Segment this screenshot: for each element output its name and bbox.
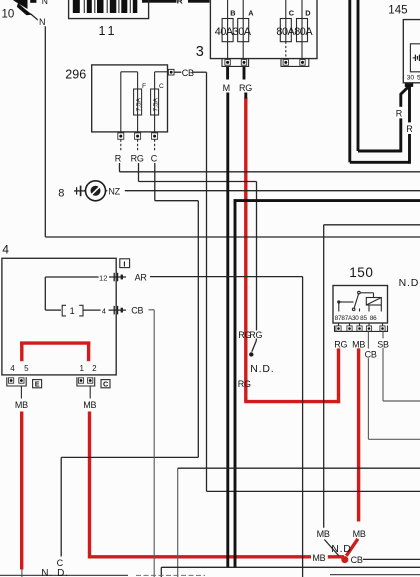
fuse holder box 296 — [92, 65, 168, 132]
svg-text:MB: MB — [83, 400, 96, 410]
svg-text:D: D — [305, 9, 310, 18]
connector bracket under fuses C D — [281, 59, 309, 67]
svg-text:SB: SB — [377, 339, 389, 349]
svg-text:N.D.: N.D. — [250, 363, 274, 375]
svg-text:N.D.: N.D. — [399, 277, 420, 289]
relay internals — [337, 291, 381, 311]
wire left red tail thin to bottom edge — [21, 569, 23, 577]
wire MB red left: connector E pin 5 down — [20, 412, 23, 570]
wire CB from 296 down then right to edge — [192, 72, 420, 491]
svg-text:R: R — [115, 154, 122, 164]
svg-text:150: 150 — [349, 265, 373, 280]
svg-text:C: C — [289, 9, 295, 18]
component 10 (cut symbol top left) — [13, 0, 36, 15]
wire RG stub black below fusebox 3 — [244, 67, 246, 99]
svg-text:4 5: 4 5 — [10, 364, 32, 373]
svg-text:8787A30 85 86: 8787A30 85 86 — [335, 315, 377, 322]
wire red U-link inside control unit 4 (pins 5 to 2) — [20, 342, 90, 362]
label CB at 150 — [364, 349, 377, 360]
label MB at 150 — [352, 338, 366, 349]
wire thick top edge with R label — [142, 0, 210, 3]
connector strip 11 — [69, 0, 149, 19]
svg-text:4: 4 — [102, 307, 106, 316]
svg-text:N.D: N.D — [331, 543, 351, 555]
fuse C 80A — [280, 0, 291, 59]
svg-text:1 2: 1 2 — [80, 364, 100, 373]
svg-text:R: R — [406, 124, 413, 134]
control unit box 4 — [2, 258, 116, 375]
label R wire under 145 — [395, 107, 406, 119]
boxed label C — [101, 380, 110, 389]
wire thick branch: corner at mid going right and down — [234, 199, 420, 567]
svg-text:RG: RG — [238, 379, 251, 389]
svg-text:C: C — [151, 154, 158, 164]
svg-text:1: 1 — [70, 306, 75, 316]
connector CB on 296 right edge — [168, 69, 181, 75]
wire C from 296 down, right, down, left, down to bottom C — [61, 163, 198, 557]
svg-text:MB: MB — [312, 553, 325, 563]
svg-text:30: 30 — [407, 74, 415, 81]
node junction under box 145 — [405, 83, 413, 87]
wire MB red from relay 150 pin 30 down to junction — [346, 348, 358, 555]
svg-text:80A80A: 80A80A — [276, 26, 313, 38]
svg-text:R: R — [396, 108, 403, 118]
connector bracket E below box 4 — [7, 377, 26, 398]
svg-text:10: 10 — [2, 9, 15, 21]
svg-text:AR: AR — [135, 273, 148, 283]
wire MB red bottom horizontal — [90, 555, 345, 558]
fuse C 7.5A in 296 — [151, 89, 159, 115]
label N on wire — [38, 16, 48, 27]
wire CB bottom right to edge — [363, 558, 420, 560]
wire SB from relay 150 down then right — [383, 331, 420, 401]
boxed label E — [33, 380, 42, 389]
svg-text:40A30A: 40A30A — [215, 26, 252, 38]
svg-text:11: 11 — [99, 24, 118, 38]
fuse F 7.5A in 296 — [134, 89, 142, 115]
component [ 1 ] inside 4 — [62, 305, 108, 316]
svg-text:A: A — [248, 9, 254, 18]
wire R upper U-turn (inner) — [358, 0, 409, 152]
wire RG from 296 down, right, down to N.D. stub — [139, 163, 257, 352]
label R wire2 under 145 — [405, 122, 416, 134]
svg-text:7,5A: 7,5A — [135, 97, 142, 111]
connector pin 12 on box edge — [109, 273, 127, 282]
wire inside 4 to pin 12 — [45, 277, 108, 310]
relay box 150 — [333, 286, 388, 324]
component 8 connector symbol — [74, 186, 86, 197]
wire bottom edge line left — [0, 574, 128, 576]
svg-text:MB: MB — [15, 400, 28, 410]
svg-text:MB: MB — [353, 529, 366, 539]
svg-text:MB: MB — [317, 529, 330, 539]
svg-text:N: N — [39, 17, 45, 27]
box 145 top right — [403, 20, 420, 83]
wire N from component 10 down left side then right — [31, 14, 420, 237]
fuse B 40A — [222, 0, 233, 59]
svg-text:145: 145 — [388, 5, 407, 17]
boxed label I — [120, 259, 130, 269]
svg-text:NZ: NZ — [108, 187, 120, 197]
fuse box 3 — [210, 0, 317, 59]
svg-text:C: C — [103, 380, 109, 389]
svg-text:N: N — [42, 0, 48, 6]
svg-text:RG: RG — [131, 154, 144, 164]
svg-text:I: I — [123, 259, 125, 268]
node junction dot N.D — [341, 556, 348, 563]
label 12 pin — [99, 272, 109, 282]
wire R from fuse F of 296 to right edge — [120, 163, 420, 172]
connector bracket under fuses B A with pins M RG — [222, 59, 249, 67]
svg-text:RG: RG — [334, 339, 347, 349]
wires inside 296 — [121, 72, 169, 133]
wire corner up from bottom edge to right at mid-low — [178, 468, 420, 577]
svg-text:MB: MB — [352, 339, 365, 349]
node N.D. dot of RG stub — [249, 352, 253, 356]
svg-text:CB: CB — [365, 349, 377, 359]
wire AR from control unit 4 right then down to bottom — [150, 277, 303, 577]
svg-text:7,5A: 7,5A — [152, 97, 159, 111]
wire RG red main: fuse A output down, across, up to relay 150 pin 87 — [244, 98, 340, 404]
svg-text:12: 12 — [99, 273, 107, 282]
label 4 pin — [101, 305, 109, 315]
svg-text:CB: CB — [351, 555, 363, 565]
connector bracket C below box 4 — [77, 377, 95, 398]
connector bracket below relay 150 — [335, 323, 388, 331]
fuse D 80A — [297, 0, 308, 59]
svg-text:R: R — [177, 0, 183, 5]
svg-text:B: B — [230, 9, 235, 18]
pins of 296 with squares and dots — [118, 133, 158, 151]
svg-text:CB: CB — [182, 68, 194, 78]
connector pin 4 on box edge — [109, 306, 127, 315]
svg-text:CB: CB — [131, 306, 143, 316]
svg-text:RG: RG — [249, 330, 262, 340]
wire NZ horizontal — [84, 190, 420, 192]
wire MB red: connector C pin 2 down — [88, 412, 91, 559]
svg-text:F: F — [142, 83, 146, 90]
wire bottom edge line right — [330, 574, 420, 576]
svg-text:N. D.: N. D. — [41, 568, 69, 577]
wire R lower U-turn (outer) — [350, 0, 410, 164]
wire M thick from fusebox 3 down — [226, 67, 229, 568]
svg-text:RG: RG — [239, 83, 252, 93]
wire CB from control unit 4 pin 4 down to bottom — [149, 310, 155, 577]
wire corner bottom left to right edge — [161, 567, 420, 577]
fuse A 30A — [238, 0, 249, 59]
svg-text:3: 3 — [196, 44, 204, 60]
svg-text:M: M — [223, 83, 230, 93]
svg-text:296: 296 — [65, 68, 86, 82]
wire MB from right edge down to junction (via label) — [324, 225, 420, 556]
lamp NZ (component 8) — [86, 181, 106, 201]
svg-text:8: 8 — [58, 187, 64, 199]
wire CB from relay 150 down then right — [368, 331, 420, 439]
label NZ — [107, 185, 125, 197]
svg-text:C: C — [159, 83, 164, 90]
label SB at 150 — [377, 338, 390, 349]
svg-text:C: C — [57, 558, 64, 568]
svg-text:E: E — [35, 380, 40, 389]
svg-text:4: 4 — [2, 243, 9, 257]
